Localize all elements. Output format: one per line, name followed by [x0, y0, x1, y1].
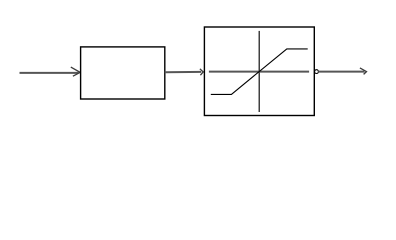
block 2 (saturation nonlinearity rectangle): [204, 27, 314, 116]
output port bubble on right edge of block 2: [315, 70, 319, 74]
input signal wire: [20, 72, 79, 74]
saturation transfer curve: [211, 49, 308, 95]
wire block1 to block2: [165, 71, 201, 73]
input arrowhead: [71, 67, 80, 76]
output arrowhead: [360, 68, 367, 75]
arrowhead into saturation block: [200, 69, 203, 75]
block 1 (linear system, empty rectangle): [81, 47, 165, 99]
vertical axis inside saturation block: [258, 31, 260, 112]
horizontal axis (gray) inside saturation block: [209, 71, 309, 73]
output signal wire: [318, 71, 364, 73]
